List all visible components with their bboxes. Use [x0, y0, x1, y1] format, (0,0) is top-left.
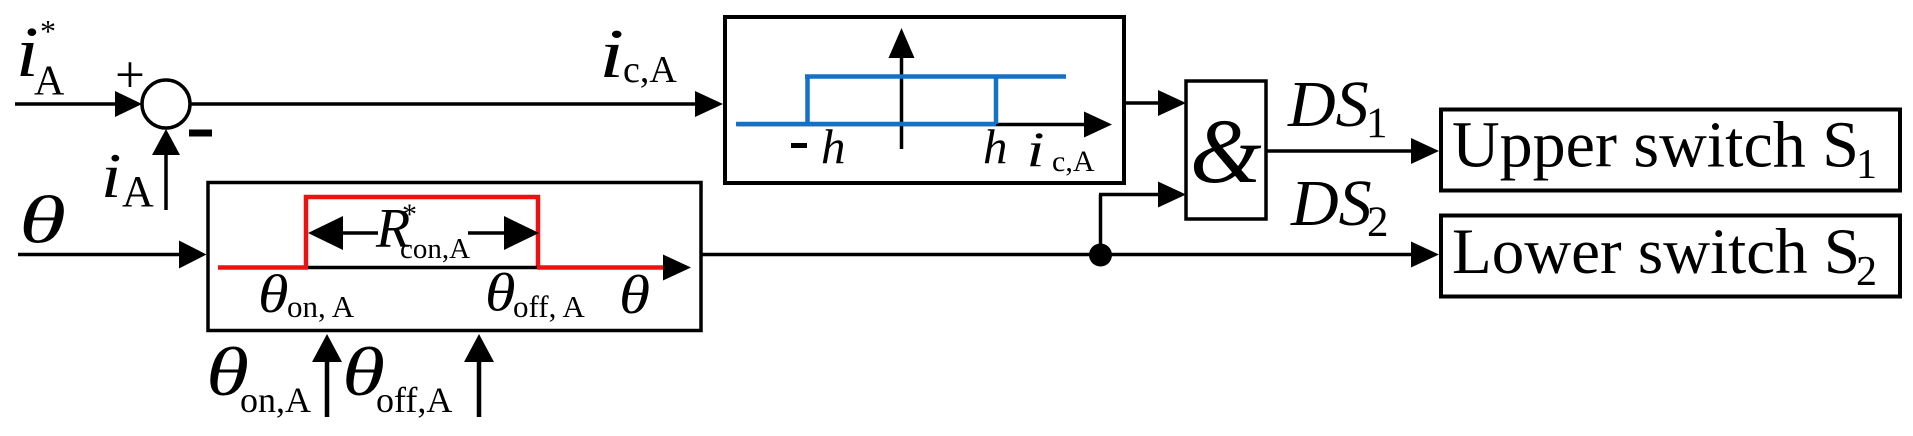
svg-text:DS: DS [1290, 167, 1372, 240]
svg-text:*: * [40, 13, 56, 49]
svg-text:i: i [101, 140, 121, 211]
block angle position comparator [208, 183, 701, 331]
red pulse waveform [218, 197, 664, 268]
label R*_con,A [375, 198, 470, 266]
svg-text:A: A [34, 59, 65, 105]
svg-text:θ: θ [19, 182, 66, 257]
wire i*_A input [15, 91, 142, 117]
arrow theta_off,A input [464, 334, 494, 417]
label theta_off,A (axis tick) [485, 262, 585, 324]
svg-text:Lower switch S: Lower switch S [1452, 216, 1860, 288]
svg-text:+: + [115, 47, 145, 105]
summing junction [142, 80, 190, 128]
label -h [791, 119, 846, 174]
svg-text:con,A: con,A [400, 233, 470, 265]
svg-text:A: A [122, 167, 154, 216]
label i_c,A (error current) [599, 15, 677, 93]
label i_c,A (hysteresis axis) [1027, 121, 1095, 178]
block Lower switch S2 [1441, 216, 1900, 297]
minus sign [189, 130, 212, 137]
svg-text:θ: θ [258, 264, 289, 324]
label i_A (feedback current) [101, 140, 154, 216]
svg-text:on,A: on,A [240, 380, 311, 420]
svg-text:1: 1 [1366, 100, 1388, 147]
junction node on lower wire [1089, 244, 1112, 267]
double arrow for R*_con,A (dwell width) [308, 216, 539, 250]
label i*_A (reference current) [16, 12, 65, 105]
svg-text:2: 2 [1367, 199, 1389, 246]
wire DS2 (lower long wire) [702, 253, 1412, 257]
label DS_1 [1287, 68, 1388, 147]
svg-text:i: i [1027, 121, 1045, 177]
svg-text:c,A: c,A [1052, 145, 1095, 178]
hysteresis x-axis [737, 123, 1086, 127]
label theta_on,A (turn-on angle input) [206, 335, 311, 420]
wire AND lower input [1099, 182, 1186, 255]
svg-text:off,A: off,A [376, 380, 452, 420]
svg-text:&: & [1190, 100, 1262, 202]
black axis segment under pulse [308, 266, 537, 270]
svg-text:h: h [983, 119, 1008, 174]
AND gate block [1186, 81, 1266, 219]
svg-text:*: * [402, 198, 417, 231]
block hysteresis controller [725, 17, 1124, 183]
svg-text:DS: DS [1287, 68, 1369, 141]
svg-text:θ: θ [619, 264, 650, 325]
block Upper switch S1 [1441, 109, 1900, 191]
hysteresis loop (blue) [736, 77, 1066, 125]
black arrowhead of theta axis [663, 255, 691, 281]
label DS_2 [1290, 167, 1389, 246]
svg-text:c,A: c,A [623, 49, 677, 91]
wire hysteresis output to AND [1124, 101, 1160, 105]
label theta_off,A (turn-off angle input) [342, 335, 452, 420]
svg-text:on, A: on, A [287, 289, 355, 324]
svg-text:θ: θ [485, 262, 516, 322]
svg-text:Upper switch S: Upper switch S [1452, 109, 1859, 182]
wire theta input [18, 241, 207, 269]
wire feedback i_A (up arrow into summing junction) [152, 129, 180, 210]
svg-text:1: 1 [1856, 142, 1877, 188]
wire error signal to hysteresis [190, 102, 697, 106]
svg-text:2: 2 [1856, 249, 1877, 295]
hysteresis y-axis [889, 28, 915, 149]
svg-text:off, A: off, A [513, 289, 585, 324]
label theta_on,A (axis tick) [258, 264, 355, 324]
svg-text:i: i [599, 15, 624, 93]
wire DS1 output [1266, 149, 1412, 153]
arrow theta_on,A input [312, 334, 342, 417]
svg-text:h: h [821, 119, 846, 174]
